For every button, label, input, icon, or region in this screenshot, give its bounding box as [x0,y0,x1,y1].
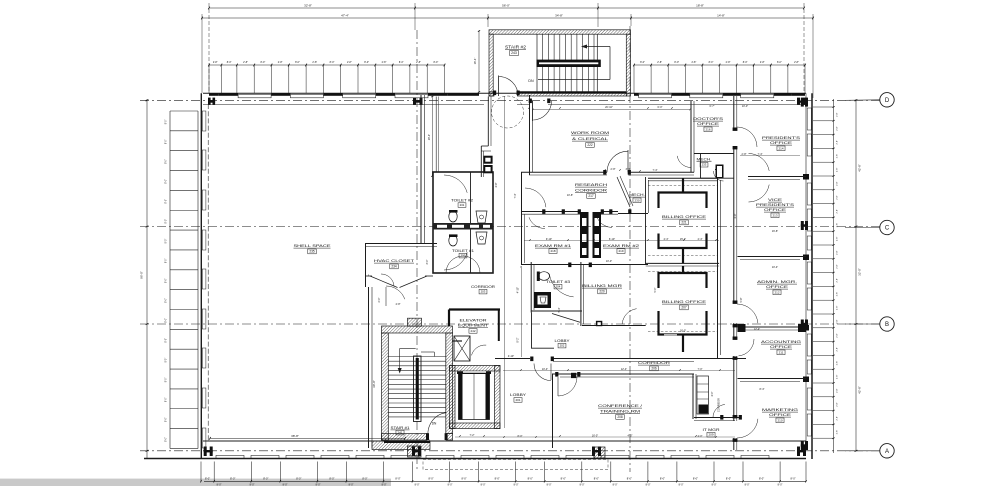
bottom wall hatched section near stair 1 [372,441,430,450]
grid line B horizontal [140,323,880,325]
svg-text:2'-8": 2'-8" [837,168,839,173]
svg-text:204: 204 [556,285,561,289]
svg-text:16'-8": 16'-8" [772,230,778,233]
svg-text:4'-10": 4'-10" [508,355,514,358]
H column top at grid 417 [413,98,416,105]
svg-text:7'-2": 7'-2" [470,434,475,437]
svg-text:OFFICE: OFFICE [764,208,787,212]
svg-text:STAIR #2: STAIR #2 [505,45,527,50]
svg-text:8'-0": 8'-0" [166,119,168,124]
top window dimension ticks left [209,64,444,66]
svg-text:2'-8": 2'-8" [837,112,839,117]
svg-text:MECH.: MECH. [629,193,645,197]
svg-text:8'-0": 8'-0" [640,61,645,64]
svg-text:TOILET #3: TOILET #3 [546,280,570,284]
svg-text:OFFICE: OFFICE [697,122,720,126]
svg-text:96'-0": 96'-0" [140,271,144,279]
president vp wall [748,176,806,178]
H column top left corner [208,98,211,105]
svg-text:4'-8": 4'-8" [495,182,498,187]
svg-text:8'-0": 8'-0" [166,358,168,363]
it mgr door arc [713,405,725,418]
toilet #3 wc [539,272,550,281]
svg-text:ELEVATOR: ELEVATOR [460,319,488,323]
svg-text:212: 212 [774,290,779,294]
bottom dimension cells [200,462,202,482]
work room bottom wall [521,171,607,173]
svg-text:7'-4": 7'-4" [758,153,763,156]
svg-text:2'-8": 2'-8" [837,292,839,297]
svg-text:CORRIDOR: CORRIDOR [638,361,671,365]
svg-text:8'-0": 8'-0" [330,61,335,64]
billing 207 cubicle upper [659,273,707,288]
svg-text:56'-0": 56'-0" [502,4,510,8]
svg-text:5'-0": 5'-0" [654,287,657,292]
hvac closet [365,243,437,245]
svg-text:203: 203 [481,290,486,294]
svg-text:8'-0": 8'-0" [399,61,404,64]
elevator equipment room walls [449,308,500,310]
svg-text:16'-4": 16'-4" [428,134,431,140]
svg-text:8'-0": 8'-0" [166,318,168,323]
svg-text:202: 202 [560,344,565,348]
svg-text:OFFICE: OFFICE [770,141,793,145]
billing 207 cubicle lower [659,311,707,335]
toilet block outline [433,172,493,273]
svg-text:8'-0": 8'-0" [260,61,265,64]
chase fixtures [483,156,492,164]
stair #1 bottom hatched wall [382,434,428,440]
svg-text:16'-0": 16'-0" [680,330,686,333]
svg-text:CORRIDOR: CORRIDOR [717,398,721,412]
exam rooms bottom wall [521,264,648,266]
svg-text:2'-8": 2'-8" [760,61,765,64]
svg-text:8'-0": 8'-0" [693,477,698,481]
svg-text:2'-8": 2'-8" [742,153,747,156]
svg-text:BILLING OFFICE: BILLING OFFICE [662,215,707,219]
svg-text:2'-8": 2'-8" [347,61,352,64]
billing 221 walls [645,213,647,265]
svg-text:2'-8": 2'-8" [416,61,421,64]
svg-text:7'-4": 7'-4" [514,193,517,198]
svg-text:3'-0": 3'-0" [426,259,429,264]
conference left wall [552,374,554,448]
toilet #3 door arc [549,274,573,297]
svg-text:4'-0": 4'-0" [698,435,703,438]
svg-text:201: 201 [515,398,520,402]
svg-text:8'-0": 8'-0" [627,477,632,481]
svg-text:8'-0": 8'-0" [166,258,168,263]
svg-text:2'-8": 2'-8" [837,347,839,352]
svg-text:8'-0": 8'-0" [362,477,367,481]
svg-text:OFFICE: OFFICE [770,345,793,349]
svg-text:12'-4": 12'-4" [621,368,627,371]
admin accounting wall at grid B [738,326,807,328]
svg-text:2'-8": 2'-8" [837,278,839,283]
elevator equip door arc [472,345,487,355]
svg-text:214: 214 [778,146,783,150]
svg-text:5'-4": 5'-4" [558,307,561,312]
svg-text:STAIR #1: STAIR #1 [391,426,410,430]
dimension line top row 1 [209,7,804,9]
svg-text:IT MGR: IT MGR [703,428,721,432]
mech 230 room [645,177,647,213]
stair #1 direction lines [400,347,416,349]
svg-text:2'-8": 2'-8" [837,375,839,380]
svg-text:MECH.: MECH. [697,158,712,162]
stair #2 center rail [537,60,601,67]
stair #1 door bottom [428,413,446,441]
svg-text:8'-0": 8'-0" [166,199,168,204]
svg-text:6'-0": 6'-0" [658,106,663,109]
svg-text:EQUIPMENT: EQUIPMENT [458,324,489,328]
svg-text:2'-8": 2'-8" [837,319,839,324]
svg-text:8'-0": 8'-0" [726,477,731,481]
elevator machine x-box [454,336,470,361]
mech 233 fixtures [716,165,724,179]
lavatory upper [476,211,487,223]
svg-text:42'-8": 42'-8" [858,386,862,394]
right exterior wall [805,93,807,450]
extension lines top [208,3,210,93]
svg-text:MARKETING: MARKETING [762,408,799,412]
conference door [557,377,559,396]
conference bottom pilaster [594,447,605,458]
svg-text:2'-8": 2'-8" [837,388,839,393]
svg-text:DN: DN [432,422,437,426]
vestibule vertical dim [431,97,433,177]
svg-text:2'-8": 2'-8" [837,237,839,242]
exam room doors [529,217,545,228]
svg-text:5'-8": 5'-8" [740,297,743,302]
svg-text:8'-0": 8'-0" [166,298,168,303]
svg-text:OFFICE: OFFICE [766,285,789,289]
bottom exterior wall outer face [144,458,806,460]
grid line C horizontal [140,226,880,228]
stair #2 direction line and arrow [585,46,611,48]
bottom wall pilaster hatched [408,446,422,457]
billing 221 billing 207 dividing wall [646,262,719,264]
lavatory lower [476,232,487,244]
svg-text:DN: DN [528,79,534,83]
lobby door arc [534,364,551,381]
svg-text:222: 222 [587,143,593,147]
svg-text:4'-8": 4'-8" [734,213,737,218]
billing mgr door arc [622,309,637,324]
svg-text:2'-8": 2'-8" [837,430,839,435]
svg-text:209: 209 [708,433,713,437]
svg-text:2'-8": 2'-8" [837,306,839,311]
svg-text:8'-0": 8'-0" [166,278,168,283]
svg-text:8'-0": 8'-0" [166,397,168,402]
svg-text:2'-8": 2'-8" [837,416,839,421]
svg-text:210: 210 [777,418,782,422]
svg-text:LOBBY: LOBBY [510,393,527,397]
toilet #3 walls [530,262,532,313]
svg-text:220: 220 [599,290,605,294]
billing mgr room walls [580,262,582,326]
svg-text:8'-0": 8'-0" [660,477,665,481]
svg-text:OFFICE: OFFICE [769,413,792,417]
svg-text:7'-0": 7'-0" [698,368,703,371]
grid line A horizontal [140,450,880,452]
conference room top wall [552,373,694,375]
work room right wall [690,101,692,172]
svg-text:8'-2": 8'-2" [517,337,520,342]
svg-text:8'-0": 8'-0" [528,477,533,481]
marketing door arc [737,419,758,438]
svg-text:6'-7": 6'-7" [710,105,715,108]
toilet fixtures wc upper [449,211,457,222]
bottom exterior wall inner face [203,440,806,442]
toilet room door arcs [444,175,467,193]
left window ladder [169,111,171,449]
H column top right corner [797,98,800,105]
svg-text:TOILET #2: TOILET #2 [451,199,473,203]
double doors at corridor end [749,154,770,171]
svg-text:BILLING OFFICE: BILLING OFFICE [662,300,707,304]
svg-text:8'-0": 8'-0" [433,61,438,64]
billing 221 cubicle upper [659,193,707,209]
left dimension line 96ft [146,99,148,459]
svg-text:4'-10": 4'-10" [517,287,520,293]
shell space interior dim [210,437,405,439]
svg-text:12'-4": 12'-4" [754,328,760,331]
svg-text:2'-8": 2'-8" [837,126,839,131]
svg-text:8'-0": 8'-0" [743,61,748,64]
work room left wall [529,95,531,175]
hvac door arc to corridor [386,286,405,299]
wall junction nubs right wall [803,174,809,180]
svg-text:14'-8": 14'-8" [717,14,725,18]
svg-text:SHELL SPACE: SHELL SPACE [294,244,332,248]
misc tick arrows [528,107,530,109]
H columns bottom wall [204,447,207,457]
svg-text:235: 235 [309,250,315,254]
svg-text:216: 216 [705,127,710,131]
bottom dimension line [204,480,806,482]
corridor 202 vestibule walls [531,313,533,349]
svg-text:206: 206 [651,367,657,371]
svg-text:PRESIDENT'S: PRESIDENT'S [756,203,795,207]
svg-text:2'-8": 2'-8" [837,181,839,186]
svg-text:8'-0": 8'-0" [594,477,599,481]
stair #1 center rail [414,356,422,422]
research corridor bottom wall [521,211,580,213]
svg-text:207: 207 [681,306,687,310]
svg-text:CORRIDOR: CORRIDOR [471,285,496,289]
svg-text:2'-8": 2'-8" [657,61,662,64]
svg-text:7'-4": 7'-4" [653,169,658,172]
grid bubbles [845,99,880,102]
svg-text:4'-0": 4'-0" [711,391,714,396]
stair #2 door and swing [498,76,500,97]
dashed pavement outline below wall [423,460,608,470]
svg-text:232: 232 [461,254,466,258]
svg-text:10'-0": 10'-0" [606,260,612,263]
svg-text:BILLING MGR: BILLING MGR [582,284,623,288]
wall corridor left upper [420,95,422,243]
svg-text:8'-0": 8'-0" [166,159,168,164]
work room entry door top [532,101,534,121]
stair #1 treads [388,356,446,358]
svg-text:16'-4": 16'-4" [473,58,477,65]
vestibule dim extension line [504,96,506,312]
svg-text:8'-0": 8'-0" [518,435,523,438]
svg-text:208: 208 [617,415,623,419]
svg-text:8'-0": 8'-0" [166,239,168,244]
svg-text:VICE: VICE [768,198,783,202]
billing 221 dashed layout lines [648,185,717,187]
toilet fixtures wc lower [449,235,457,246]
stair1 door jamb nubs [426,433,429,440]
svg-text:8'-0": 8'-0" [296,477,301,481]
president office door arc [737,127,757,147]
svg-text:2'-8": 2'-8" [726,61,731,64]
top wall inner face [203,104,484,106]
svg-text:8'-0": 8'-0" [364,61,369,64]
accounting marketing wall [738,378,807,380]
elevator shaft walls [450,366,501,372]
svg-text:211: 211 [779,350,784,354]
svg-text:2'-8": 2'-8" [312,61,317,64]
svg-text:10'-8": 10'-8" [567,194,573,197]
svg-text:TRAINING RM: TRAINING RM [600,410,640,414]
svg-text:CORRIDOR: CORRIDOR [575,189,608,193]
stair vestibule east wall with jog [487,97,489,147]
right window ticks [833,99,835,453]
billing mgr wall box [596,321,602,326]
toilet divider wall [470,172,472,223]
corridor 206 top wall [495,358,530,360]
research corridor door to offices [714,171,724,181]
svg-text:A: A [885,449,889,455]
grid vertical at 417 [416,30,418,472]
svg-text:8'-4": 8'-4" [760,388,765,391]
svg-text:8'-0": 8'-0" [777,61,782,64]
svg-text:2'-8": 2'-8" [837,333,839,338]
top exterior wall outer face [203,92,806,94]
svg-text:LOBBY: LOBBY [555,339,571,343]
toilet 1 half circle door swing [446,256,480,273]
svg-text:2'-8": 2'-8" [691,61,696,64]
svg-text:8'-0": 8'-0" [674,61,679,64]
svg-text:20'-10": 20'-10" [605,106,613,109]
svg-text:219: 219 [618,249,623,253]
svg-text:B: B [885,322,889,328]
svg-text:& CLERICAL: & CLERICAL [572,137,608,141]
svg-text:2'-8": 2'-8" [837,250,839,255]
svg-text:8'-0": 8'-0" [166,179,168,184]
svg-text:8'-0": 8'-0" [495,477,500,481]
svg-text:CONFERENCE /: CONFERENCE / [598,404,644,408]
svg-text:32'-8": 32'-8" [304,4,312,8]
left exterior wall [200,93,202,459]
dimension line top row 2 [202,17,813,19]
svg-text:8'-0": 8'-0" [709,61,714,64]
svg-text:2'-8": 2'-8" [837,209,839,214]
stair #2 treads [536,34,538,92]
door arc work room upper right [677,156,691,168]
svg-text:8'-0": 8'-0" [166,338,168,343]
svg-text:218: 218 [550,249,555,253]
svg-text:8'-0": 8'-0" [428,477,433,481]
stair #1 enclosure hatched walls [382,326,453,333]
svg-text:8'-0": 8'-0" [166,139,168,144]
door arc lobby conference area [553,375,555,377]
svg-text:8'-0": 8'-0" [790,477,795,481]
svg-text:PRESIDENT'S: PRESIDENT'S [762,136,801,140]
svg-text:D: D [885,98,890,104]
wall nub conference top [571,373,576,378]
svg-text:10'-0": 10'-0" [742,105,748,108]
work room door [627,150,629,172]
svg-text:EXAM RM #2: EXAM RM #2 [603,244,639,248]
svg-text:8'-0": 8'-0" [462,477,467,481]
svg-text:30'-0": 30'-0" [372,380,376,388]
svg-text:8'-0": 8'-0" [166,219,168,224]
svg-text:42'-8": 42'-8" [858,164,862,172]
accounting door arc [739,339,755,356]
top wall window bars and windows [209,93,219,96]
svg-text:4'-4": 4'-4" [698,238,703,241]
svg-text:2'-8": 2'-8" [837,223,839,228]
svg-text:242: 242 [470,329,475,333]
bottom wall windows [216,455,244,458]
toilet #3 sink [534,292,551,308]
svg-text:2'-8": 2'-8" [794,61,799,64]
shell space boundary wall lower [368,287,370,448]
stair #2 enclosure hatched walls [489,30,631,34]
svg-text:243: 243 [511,51,517,55]
stair #1 pilaster above top wall [408,318,422,326]
svg-text:8'-0": 8'-0" [166,417,168,422]
svg-text:8'-0": 8'-0" [166,437,168,442]
svg-text:2'-8": 2'-8" [837,361,839,366]
svg-text:2'-8": 2'-8" [611,168,616,171]
grid line D horizontal dash-dot [140,99,880,101]
svg-text:16'-0": 16'-0" [592,435,598,438]
svg-text:32'-0": 32'-0" [858,268,862,276]
door jamb nubs [529,99,532,104]
stair #2 left vertical dim [478,31,480,92]
svg-text:2'-8": 2'-8" [278,61,283,64]
svg-text:217: 217 [588,194,594,198]
svg-text:38'-8": 38'-8" [291,434,299,438]
svg-text:47'-4": 47'-4" [341,14,349,18]
svg-text:8'-0": 8'-0" [395,477,400,481]
it mgr room [694,417,739,419]
svg-text:ADMIN. MGR.: ADMIN. MGR. [757,280,797,284]
gray scan band bottom-left [0,479,391,486]
svg-text:2'-8": 2'-8" [837,402,839,407]
svg-text:8'-0": 8'-0" [329,477,334,481]
svg-text:2'-8": 2'-8" [837,140,839,145]
conference chase [697,376,709,414]
svg-text:8'-0": 8'-0" [263,477,268,481]
svg-text:C: C [885,226,890,232]
vp admin wall [738,256,807,258]
research corridor west door arc [525,188,546,207]
doctor mech wall [694,153,734,155]
svg-text:9'-10": 9'-10" [546,238,552,241]
exam rooms left wall [521,172,523,265]
svg-text:ACCOUNTING: ACCOUNTING [761,340,802,344]
svg-text:RESEARCH: RESEARCH [575,183,608,187]
main corridor east wall [733,96,735,450]
svg-text:6'-10": 6'-10" [609,238,615,241]
svg-text:18'-8": 18'-8" [696,4,704,8]
